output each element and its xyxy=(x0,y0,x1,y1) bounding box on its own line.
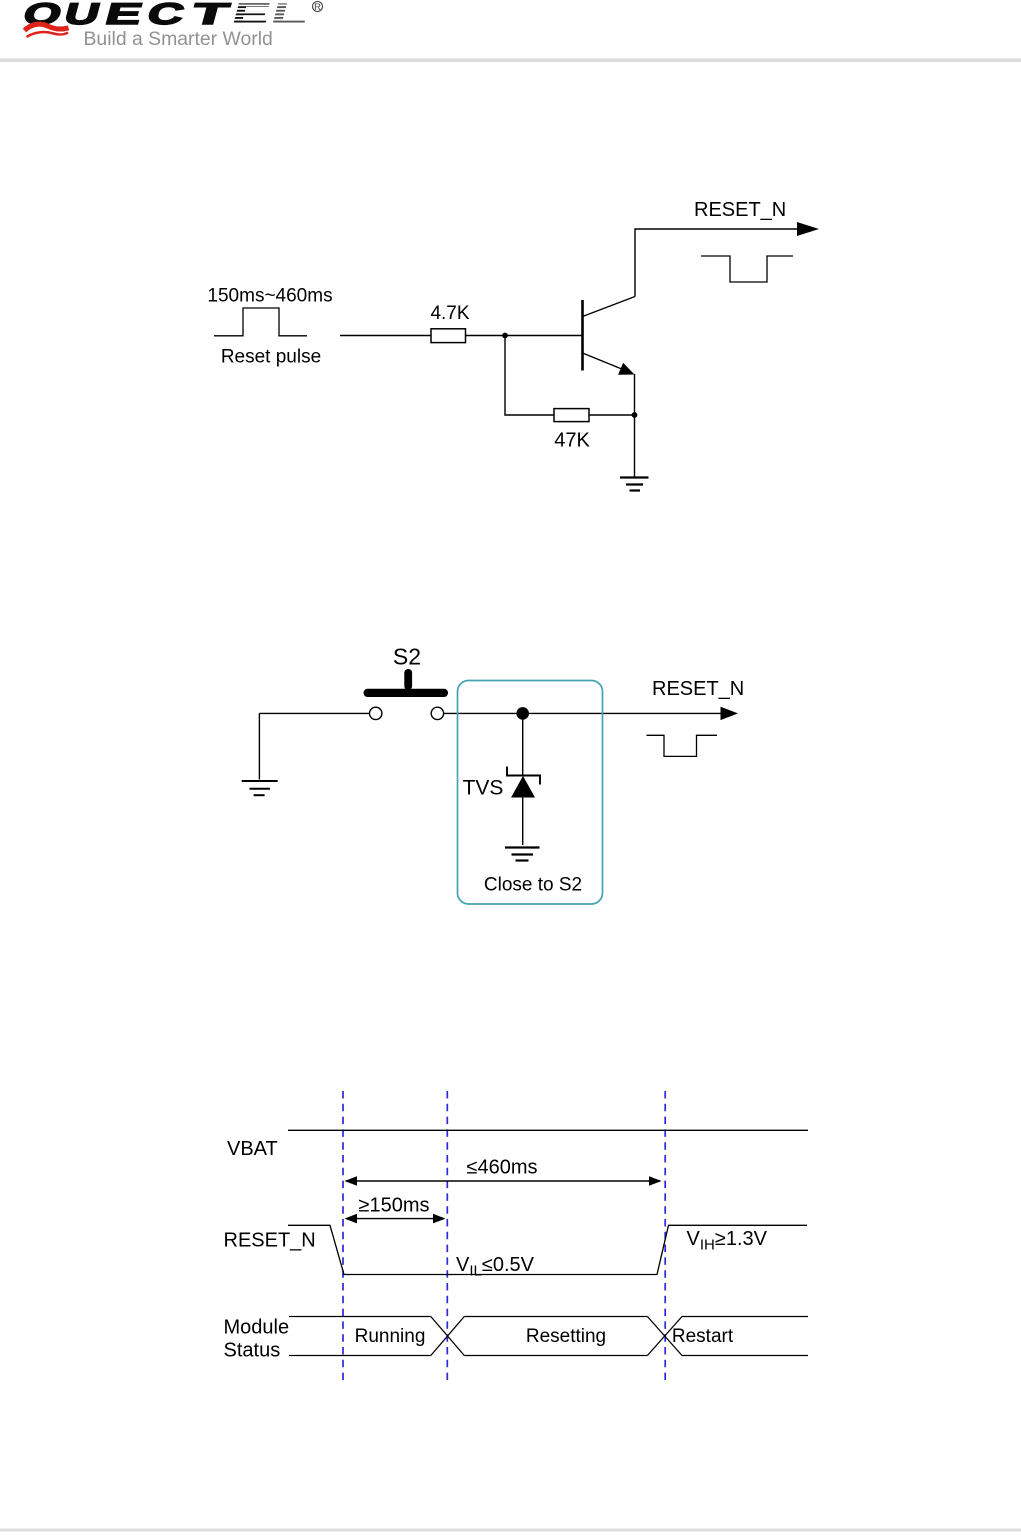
dashed marker t2 xyxy=(446,1091,448,1380)
svg-text:VBAT: VBAT xyxy=(227,1138,278,1160)
switch S2 left contact xyxy=(370,707,382,719)
arrow RESET_N output xyxy=(797,222,819,236)
wire ground to left contact xyxy=(259,712,369,714)
header divider xyxy=(0,59,1021,62)
svg-text:RESET_N: RESET_N xyxy=(652,678,744,700)
dashed marker t3 xyxy=(664,1091,666,1380)
resistor 47K xyxy=(554,409,589,422)
waveform reset input pulse xyxy=(214,308,307,336)
wire right contact to RESET_N xyxy=(444,712,722,714)
svg-text:TVS: TVS xyxy=(463,777,504,800)
switch S2 right contact xyxy=(431,707,443,719)
resistor 4.7K xyxy=(431,329,466,343)
VBAT level line xyxy=(288,1129,808,1131)
svg-text:Close to S2: Close to S2 xyxy=(484,875,582,896)
dimension arrow 460ms xyxy=(345,1176,662,1186)
ground (S2) xyxy=(242,781,278,795)
close-to-S2 keepout box xyxy=(458,681,603,905)
logo registered trademark xyxy=(313,2,323,13)
svg-text:≤460ms: ≤460ms xyxy=(466,1157,537,1179)
RESET_N waveform xyxy=(288,1225,807,1274)
transistor Q1 emitter arrow xyxy=(618,363,634,375)
bus mid segment rails xyxy=(464,1317,647,1356)
svg-text:4.7K: 4.7K xyxy=(430,303,469,324)
logo Q tail mask xyxy=(31,26,57,32)
wire RESET_N output xyxy=(635,229,799,297)
transistor Q1 collector xyxy=(583,297,636,317)
wire base to 47K xyxy=(505,336,554,416)
ground (emitter) xyxy=(620,478,649,491)
dashed marker t1 xyxy=(342,1091,344,1380)
logo QUECTEL wordmark xyxy=(20,0,313,31)
svg-text:Build a Smarter World: Build a Smarter World xyxy=(84,28,273,50)
svg-text:L: L xyxy=(267,0,313,31)
svg-text:Reset pulse: Reset pulse xyxy=(221,347,321,368)
ground (TVS) xyxy=(505,848,540,861)
wire 47K to emitter xyxy=(589,414,635,416)
svg-text:C: C xyxy=(144,0,188,31)
wire emitter down xyxy=(634,374,636,478)
svg-text:Restart: Restart xyxy=(672,1326,734,1347)
svg-text:S2: S2 xyxy=(393,644,421,670)
wire resistor to base xyxy=(466,335,582,337)
dimension arrow 150ms xyxy=(345,1214,446,1224)
svg-text:Resetting: Resetting xyxy=(526,1326,606,1347)
transistor Q1 base bar xyxy=(581,300,584,371)
svg-text:47K: 47K xyxy=(554,430,590,452)
svg-text:Status: Status xyxy=(224,1339,281,1361)
module status bus top rail xyxy=(289,1316,431,1318)
svg-text:RESET_N: RESET_N xyxy=(694,199,786,221)
node TVS junction xyxy=(516,707,529,720)
transistor Q1 emitter xyxy=(583,353,624,370)
svg-text:≥150ms: ≥150ms xyxy=(358,1195,429,1217)
svg-text:Running: Running xyxy=(355,1326,426,1347)
wire left drop to ground xyxy=(258,713,260,779)
diode TVS anode triangle xyxy=(511,776,535,798)
wire base input xyxy=(340,335,431,337)
svg-text:E: E xyxy=(102,0,146,31)
svg-text:R: R xyxy=(314,2,321,13)
svg-text:VIH≥1.3V: VIH≥1.3V xyxy=(687,1228,768,1254)
svg-text:VIL≤0.5V: VIL≤0.5V xyxy=(456,1254,535,1280)
wire junction to TVS xyxy=(522,713,524,775)
node emitter junction xyxy=(632,412,638,418)
bus crossover X1 xyxy=(431,1317,465,1356)
waveform negative pulse at RESET_N xyxy=(701,256,793,282)
switch S2 actuator stem xyxy=(404,669,412,690)
node base junction xyxy=(502,333,508,339)
svg-text:150ms~460ms: 150ms~460ms xyxy=(207,286,332,307)
diode TVS cathode bar xyxy=(507,767,540,785)
arrow RESET_N xyxy=(721,707,739,720)
logo red swoosh xyxy=(25,24,69,37)
waveform negative pulse xyxy=(647,735,718,756)
bus crossover X2 xyxy=(647,1317,682,1356)
svg-text:T: T xyxy=(188,0,232,31)
switch S2 actuator bar xyxy=(364,689,449,697)
wire TVS to ground xyxy=(522,798,524,846)
module status bus bottom rail xyxy=(289,1355,431,1357)
bus right segment rails xyxy=(682,1317,808,1356)
footer divider xyxy=(0,1529,1021,1532)
svg-text:Module: Module xyxy=(224,1316,290,1338)
svg-text:RESET_N: RESET_N xyxy=(224,1230,316,1252)
